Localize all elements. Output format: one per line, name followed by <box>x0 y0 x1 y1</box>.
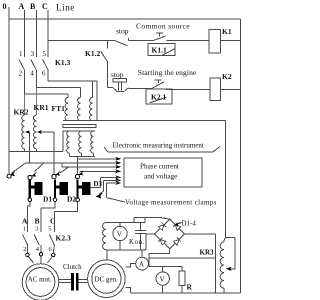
svg-text:and voltage: and voltage <box>144 173 177 181</box>
svg-text:D1: D1 <box>43 195 52 204</box>
svg-text:R: R <box>187 283 193 292</box>
svg-text:AC mot.: AC mot. <box>28 275 52 283</box>
svg-text:FT1: FT1 <box>52 104 66 113</box>
svg-text:2: 2 <box>19 70 23 78</box>
svg-text:KR1: KR1 <box>34 103 49 112</box>
svg-text:B: B <box>30 2 36 11</box>
svg-text:Clutch: Clutch <box>63 263 82 271</box>
svg-text:Electronic measuring instrumen: Electronic measuring instrument <box>113 142 204 150</box>
svg-text:K2.3: K2.3 <box>56 234 71 243</box>
svg-text:K2.1: K2.1 <box>151 93 166 102</box>
svg-text:V: V <box>117 231 122 239</box>
svg-text:6: 6 <box>42 70 46 78</box>
svg-text:A: A <box>22 217 28 226</box>
svg-text:Kon.: Kon. <box>129 238 145 246</box>
svg-text:stop: stop <box>111 70 124 79</box>
svg-text:A: A <box>19 2 25 11</box>
svg-text:B: B <box>35 217 40 226</box>
svg-text:D2: D2 <box>67 195 76 204</box>
svg-text:Line: Line <box>56 3 75 13</box>
svg-text:K1.1: K1.1 <box>152 46 167 55</box>
svg-text:KR3: KR3 <box>200 249 215 257</box>
svg-text:D3: D3 <box>94 180 103 188</box>
svg-text:stop: stop <box>116 27 129 36</box>
svg-text:4: 4 <box>30 70 34 78</box>
svg-text:A: A <box>139 261 144 269</box>
svg-text:3: 3 <box>31 50 35 58</box>
svg-text:Starting the engine: Starting the engine <box>138 68 197 77</box>
svg-text:5: 5 <box>48 226 51 233</box>
svg-text:K1.3: K1.3 <box>55 58 70 67</box>
svg-text:K1.2: K1.2 <box>85 49 100 58</box>
svg-text:KR2: KR2 <box>14 108 29 117</box>
svg-text:V: V <box>160 276 165 284</box>
svg-text:0: 0 <box>3 2 7 11</box>
svg-text:1: 1 <box>19 50 23 58</box>
svg-text:1: 1 <box>23 226 26 233</box>
svg-text:C: C <box>42 2 48 11</box>
svg-text:2: 2 <box>23 246 26 253</box>
svg-text:DC gen.: DC gen. <box>95 276 119 284</box>
svg-text:5: 5 <box>42 50 46 58</box>
svg-text:C: C <box>50 217 55 226</box>
svg-text:D1-4: D1-4 <box>182 220 197 228</box>
svg-text:K1: K1 <box>222 27 232 36</box>
svg-text:3: 3 <box>35 226 38 233</box>
svg-text:Common source: Common source <box>136 22 190 31</box>
svg-text:Phase current: Phase current <box>140 163 179 171</box>
svg-text:K2: K2 <box>222 72 232 81</box>
svg-text:Voltage measurement clamps: Voltage measurement clamps <box>125 199 217 207</box>
